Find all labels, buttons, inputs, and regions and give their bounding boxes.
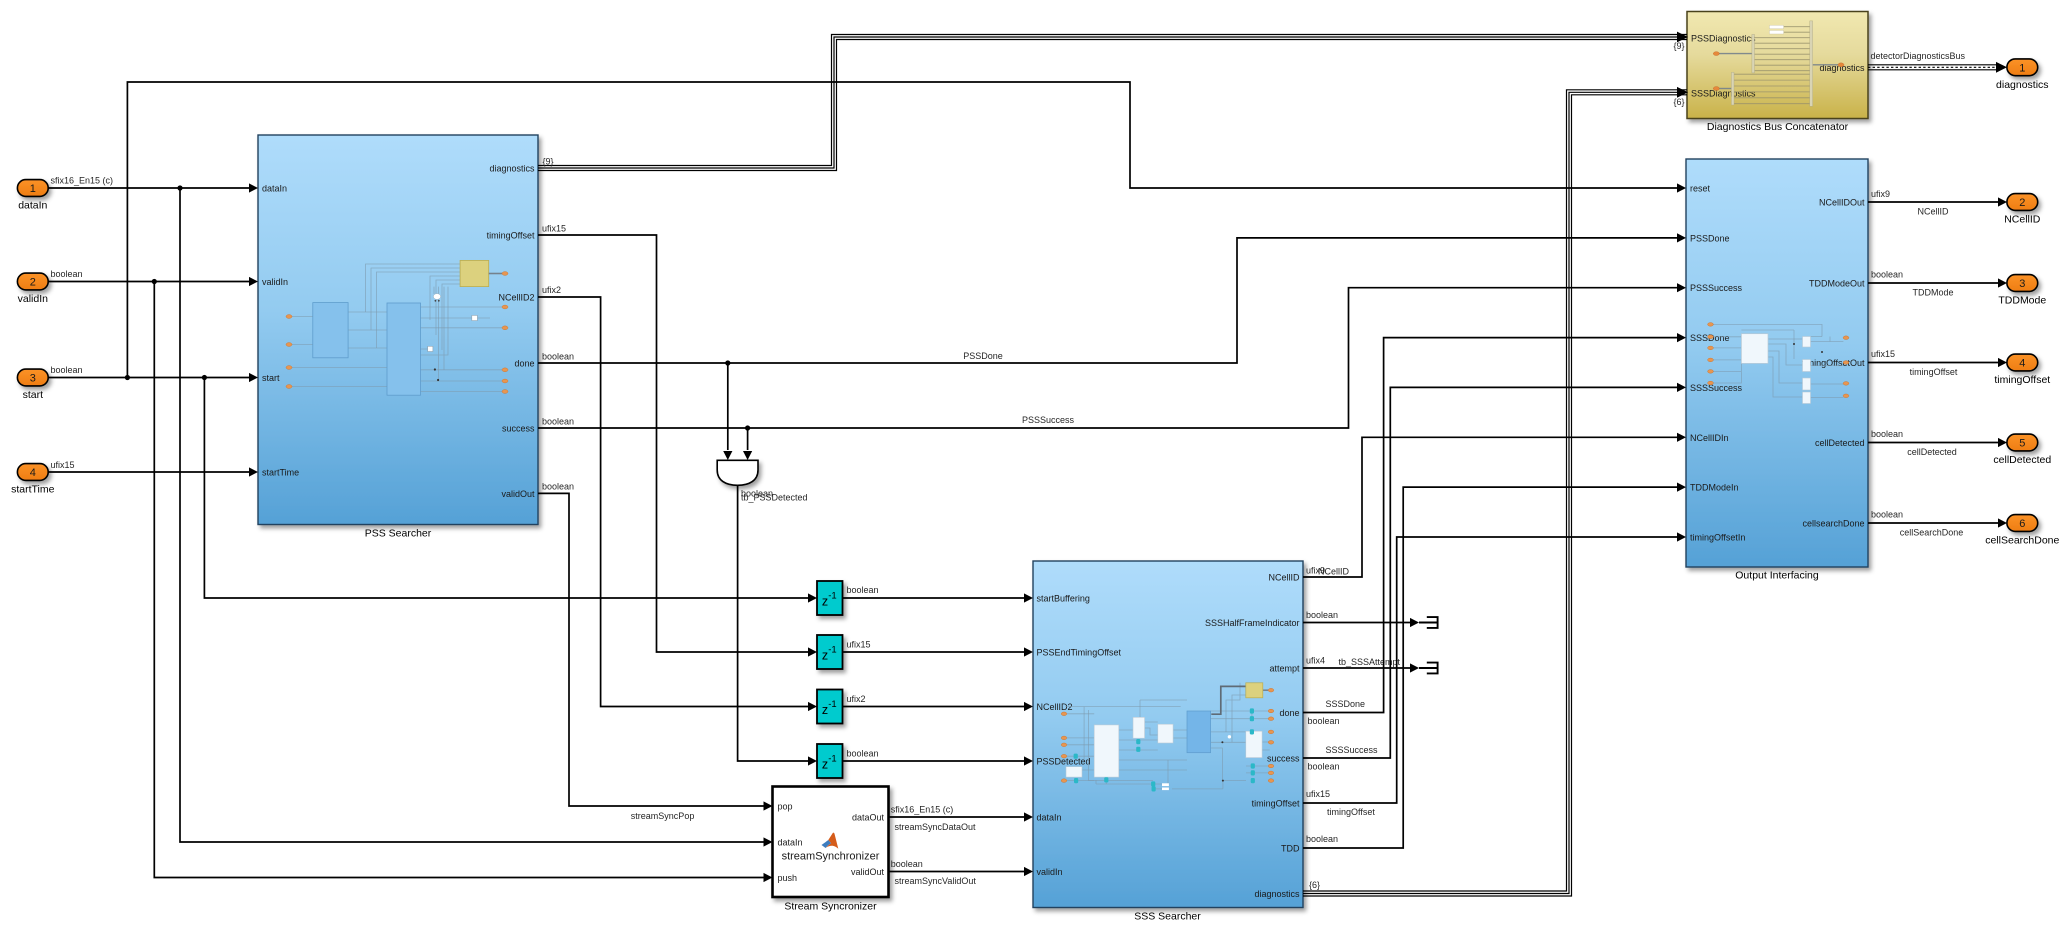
svg-text:startTime: startTime [262, 468, 299, 478]
wire PSS success to Output Interfacing PSSSuccess [538, 283, 1686, 428]
svg-text:boolean: boolean [1308, 716, 1340, 726]
svg-text:cellDetected: cellDetected [1907, 447, 1957, 457]
wire branch done to AND gate input 1 [723, 363, 732, 460]
wire SSS timingOffset to Output Interfacing timingOffsetIn [1303, 532, 1686, 817]
svg-text:4: 4 [30, 467, 36, 479]
svg-text:z: z [822, 703, 828, 717]
svg-text:PSSDiagnostics: PSSDiagnostics [1691, 34, 1756, 44]
wire SSS done to Output Interfacing SSSDone [1303, 333, 1686, 726]
svg-text:TDDMode: TDDMode [1912, 288, 1953, 298]
svg-text:dataOut: dataOut [852, 813, 885, 823]
wire delay Z1 to SSS startBuffering [843, 585, 1034, 603]
wire Stream Syncronizer validOut to SSS validIn [889, 859, 1034, 886]
svg-text:4: 4 [2019, 358, 2025, 370]
svg-text:z: z [822, 595, 828, 609]
wire PSS NCellID2 to delay Z3 [538, 285, 817, 711]
wire SSS success to Output Interfacing SSSSuccess [1303, 383, 1686, 772]
svg-text:{6}: {6} [1309, 880, 1320, 890]
svg-text:boolean: boolean [1871, 270, 1903, 280]
inport 2 validIn [17, 273, 48, 305]
svg-text:PSSEndTimingOffset: PSSEndTimingOffset [1037, 648, 1122, 658]
wire branch start to Output Interfacing reset [127, 82, 1686, 378]
svg-text:streamSyncValidOut: streamSyncValidOut [895, 876, 977, 886]
svg-text:ufix2: ufix2 [847, 694, 866, 704]
delay block Z1 (z^-1) [817, 581, 843, 615]
svg-text:tb_SSSAttempt: tb_SSSAttempt [1339, 657, 1401, 667]
svg-text:boolean: boolean [1871, 429, 1903, 439]
wire branch start to delay Z1 [204, 378, 817, 603]
junctions on start wire [125, 375, 207, 380]
SSS Searcher mini-diagram [1061, 683, 1274, 792]
wire delay Z2 to SSS PSSEndTimingOffset [843, 640, 1034, 657]
svg-text:NCellIDOut: NCellIDOut [1819, 198, 1865, 208]
svg-text:Stream Syncronizer: Stream Syncronizer [784, 901, 877, 913]
svg-text:cellSearchDone: cellSearchDone [1900, 528, 1964, 538]
svg-text:1: 1 [2019, 62, 2025, 74]
svg-text:start: start [23, 389, 44, 401]
svg-text:NCellID: NCellID [1268, 573, 1300, 583]
svg-text:boolean: boolean [1871, 510, 1903, 520]
svg-text:NCellID: NCellID [1318, 567, 1350, 577]
svg-text:cellsearchDone: cellsearchDone [1802, 519, 1864, 529]
bus wire Diagnostics Bus Concatenator diagnostics to outport 1 [1868, 51, 2007, 73]
Bus Creator block Diagnostics Bus Concatenator [1687, 12, 1868, 134]
svg-text:dataIn: dataIn [778, 838, 803, 848]
svg-text:start: start [262, 373, 280, 383]
svg-text:{9}: {9} [1674, 41, 1685, 51]
svg-text:boolean: boolean [847, 585, 879, 595]
svg-text:NCellID: NCellID [1917, 207, 1949, 217]
svg-text:validOut: validOut [501, 489, 535, 499]
svg-text:boolean: boolean [51, 269, 83, 279]
svg-text:timingOffset: timingOffset [1327, 807, 1375, 817]
wire delay Z4 to SSS PSSDetected [843, 749, 1034, 766]
svg-text:Output Interfacing: Output Interfacing [1735, 570, 1819, 582]
outport 4 timingOffset [1994, 354, 2050, 386]
inport 1 dataIn [17, 180, 48, 212]
svg-text:SSSSuccess: SSSSuccess [1690, 383, 1743, 393]
subsystem block PSS Searcher [258, 135, 538, 540]
svg-text:success: success [502, 424, 535, 434]
PSS Searcher mini-diagram [286, 260, 508, 395]
svg-text:diagnostics: diagnostics [1254, 889, 1300, 899]
svg-text:{9}: {9} [543, 157, 554, 167]
svg-text:-1: -1 [828, 591, 836, 602]
svg-text:streamSynchronizer: streamSynchronizer [782, 851, 880, 863]
svg-text:Diagnostics Bus Concatenator: Diagnostics Bus Concatenator [1707, 121, 1849, 133]
svg-text:ufix15: ufix15 [847, 640, 871, 650]
wire SSS NCellID to Output Interfacing NCellIDIn [1303, 433, 1686, 577]
svg-text:PSSDone: PSSDone [963, 351, 1003, 361]
svg-text:ufix2: ufix2 [542, 285, 561, 295]
svg-text:done: done [1279, 708, 1299, 718]
svg-text:PSSSuccess: PSSSuccess [1690, 283, 1743, 293]
svg-text:attempt: attempt [1269, 664, 1300, 674]
svg-text:TDDMode: TDDMode [1998, 295, 2046, 307]
svg-text:boolean: boolean [51, 365, 83, 375]
wire PSS done to Output Interfacing PSSDone [538, 233, 1686, 363]
outport 1 diagnostics [1996, 59, 2049, 91]
wire start: inport 3 to PSS Searcher start [48, 365, 258, 382]
svg-text:streamSyncPop: streamSyncPop [631, 811, 695, 821]
wire SSS TDD to Output Interfacing TDDModeIn [1303, 483, 1686, 849]
svg-text:boolean: boolean [1306, 834, 1338, 844]
svg-text:NCellID: NCellID [2004, 214, 2041, 226]
svg-text:ufix15: ufix15 [1871, 349, 1895, 359]
wire delay Z3 to SSS NCellID2 [843, 694, 1034, 711]
svg-text:cellDetected: cellDetected [1815, 438, 1865, 448]
svg-text:done: done [514, 359, 534, 369]
subsystem block Output Interfacing [1686, 159, 1868, 582]
svg-text:SSS Searcher: SSS Searcher [1134, 911, 1201, 923]
svg-text:SSSHalfFrameIndicator: SSSHalfFrameIndicator [1205, 618, 1300, 628]
svg-text:diagnostics: diagnostics [1996, 79, 2049, 91]
svg-text:boolean: boolean [542, 482, 574, 492]
svg-text:reset: reset [1690, 184, 1711, 194]
wire PSS validOut to Stream Syncronizer pop [538, 482, 773, 821]
svg-text:tb_PSSDetected: tb_PSSDetected [741, 493, 808, 503]
svg-text:-1: -1 [828, 699, 836, 710]
svg-text:ufix4: ufix4 [1306, 656, 1325, 666]
terminator T2 tb_SSSAttempt [1419, 663, 1438, 674]
svg-text:1: 1 [30, 183, 36, 195]
svg-text:dataIn: dataIn [262, 184, 287, 194]
subsystem block SSS Searcher [1033, 561, 1303, 923]
wire Output Interfacing timingOffsetOut to outport 4 [1868, 349, 2007, 377]
svg-text:timingOffsetOut: timingOffsetOut [1802, 358, 1865, 368]
svg-text:SSSDiagnostics: SSSDiagnostics [1691, 89, 1756, 99]
svg-text:ufix9: ufix9 [1871, 189, 1890, 199]
delay block Z2 (z^-1) [817, 635, 843, 669]
svg-text:diagnostics: diagnostics [489, 164, 535, 174]
svg-text:3: 3 [30, 373, 36, 385]
svg-text:SSSSuccess: SSSSuccess [1326, 745, 1379, 755]
svg-text:NCellID2: NCellID2 [1037, 702, 1073, 712]
svg-text:boolean: boolean [1308, 762, 1340, 772]
svg-text:sfix16_En15 (c): sfix16_En15 (c) [51, 176, 114, 186]
wire Output Interfacing cellsearchDone to outport 6 [1868, 510, 2007, 538]
terminator T1 SSSHalfFrameIndicator [1419, 617, 1438, 628]
wire Output Interfacing cellDetected to outport 5 [1868, 429, 2007, 457]
svg-text:TDDModeIn: TDDModeIn [1690, 483, 1739, 493]
svg-text:NCellID2: NCellID2 [498, 293, 534, 303]
svg-text:{6}: {6} [1674, 97, 1685, 107]
svg-text:-1: -1 [828, 645, 836, 656]
svg-text:success: success [1267, 754, 1300, 764]
junction on dataIn wire [177, 185, 182, 190]
outport 2 NCellID [2004, 194, 2041, 226]
wire validIn: inport 2 to PSS Searcher validIn [48, 269, 258, 286]
svg-text:6: 6 [2019, 518, 2025, 530]
svg-text:NCellIDIn: NCellIDIn [1690, 433, 1729, 443]
Output Interfacing mini-diagram [1708, 323, 1849, 404]
inport 4 startTime [11, 464, 55, 496]
bus wire PSS diagnostics to Diagnostics Bus Concatenator PSSDiagnostics [538, 32, 1688, 171]
MATLAB Function block Stream Syncronizer [773, 787, 889, 913]
svg-text:validIn: validIn [18, 293, 49, 305]
svg-text:timingOffset: timingOffset [1994, 374, 2050, 386]
svg-text:-1: -1 [828, 754, 836, 765]
wire Stream Syncronizer dataOut to SSS dataIn [889, 805, 1034, 832]
wire Output Interfacing NCellIDOut to outport 2 [1868, 189, 2007, 217]
wire branch success to AND gate input 2 [743, 428, 752, 460]
svg-text:TDDModeOut: TDDModeOut [1809, 279, 1865, 289]
outport 3 TDDMode [1998, 275, 2046, 307]
svg-text:timingOffset: timingOffset [1252, 799, 1300, 809]
svg-text:ufix15: ufix15 [51, 460, 75, 470]
svg-text:boolean: boolean [542, 416, 574, 426]
wire Output Interfacing TDDModeOut to outport 3 [1868, 270, 2007, 298]
svg-text:5: 5 [2019, 438, 2025, 450]
svg-text:z: z [822, 649, 828, 663]
svg-text:ufix15: ufix15 [1306, 789, 1330, 799]
delay block Z3 (z^-1) [817, 690, 843, 724]
outport 5 cellDetected [1993, 434, 2051, 466]
svg-text:validOut: validOut [851, 867, 885, 877]
wire PSS timingOffset to delay Z2 [538, 224, 817, 657]
junction on success wire [745, 425, 750, 430]
junction on validIn wire [152, 279, 157, 284]
wire SSS attempt to terminator T2 [1303, 656, 1419, 673]
svg-text:PSSDone: PSSDone [1690, 233, 1730, 243]
svg-text:3: 3 [2019, 278, 2025, 290]
svg-text:validIn: validIn [1037, 867, 1063, 877]
svg-text:timingOffset: timingOffset [1910, 367, 1958, 377]
svg-text:validIn: validIn [262, 277, 288, 287]
svg-text:boolean: boolean [1306, 610, 1338, 620]
wire dataIn: inport 1 to PSS Searcher dataIn [48, 176, 258, 193]
svg-text:dataIn: dataIn [1037, 813, 1062, 823]
junction on done wire [725, 360, 730, 365]
svg-text:streamSyncDataOut: streamSyncDataOut [895, 822, 977, 832]
svg-text:2: 2 [30, 277, 36, 289]
svg-text:timingOffsetIn: timingOffsetIn [1690, 533, 1745, 543]
wire SSS SSSHalfFrameIndicator to terminator T1 [1303, 610, 1419, 627]
svg-text:timingOffset: timingOffset [487, 231, 535, 241]
svg-text:startTime: startTime [11, 484, 55, 496]
wire AND gate output to delay Z4 [738, 485, 817, 765]
svg-text:sfix16_En15 (c): sfix16_En15 (c) [891, 805, 954, 815]
svg-text:cellDetected: cellDetected [1993, 454, 2051, 466]
svg-text:startBuffering: startBuffering [1037, 594, 1090, 604]
svg-text:SSSDone: SSSDone [1326, 699, 1366, 709]
MATLAB membrane logo [822, 833, 839, 849]
svg-text:PSS Searcher: PSS Searcher [365, 528, 432, 540]
wire branch validIn to Stream Syncronizer push [154, 282, 772, 883]
AND gate (PSSDone AND PSSSuccess -> tb_PSSDetected) [717, 460, 758, 485]
svg-text:pop: pop [778, 802, 793, 812]
svg-text:cellSearchDone: cellSearchDone [1985, 535, 2059, 547]
wire startTime: inport 4 to PSS Searcher startTime [48, 460, 258, 477]
wire branch dataIn to Stream Syncronizer dataIn [180, 188, 773, 847]
svg-text:TDD: TDD [1281, 844, 1300, 854]
outport 6 cellSearchDone [1985, 515, 2059, 547]
svg-text:dataIn: dataIn [18, 200, 47, 212]
svg-text:boolean: boolean [847, 749, 879, 759]
svg-text:PSSSuccess: PSSSuccess [1022, 415, 1075, 425]
delay block Z4 (z^-1) [817, 744, 843, 778]
svg-text:push: push [778, 873, 798, 883]
svg-text:z: z [822, 758, 828, 772]
svg-text:ufix15: ufix15 [542, 224, 566, 234]
bus wire SSS diagnostics to Diagnostics Bus Concatenator SSSDiagnostics [1303, 87, 1688, 896]
svg-text:boolean: boolean [542, 351, 574, 361]
Diagnostics Bus Concatenator mini-diagram [1713, 21, 1844, 106]
svg-text:detectorDiagnosticsBus: detectorDiagnosticsBus [1871, 51, 1966, 61]
svg-text:boolean: boolean [891, 859, 923, 869]
svg-text:2: 2 [2019, 197, 2025, 209]
inport 3 start [17, 369, 48, 401]
